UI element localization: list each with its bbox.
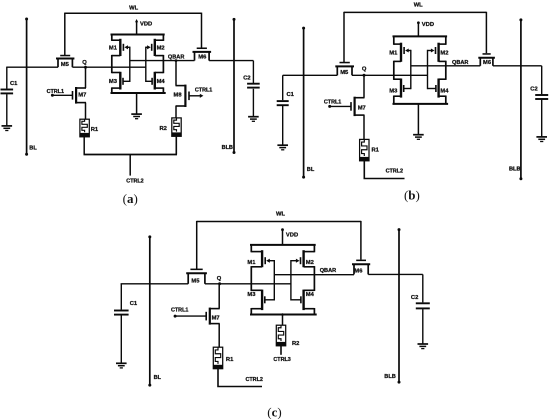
svg-text:M3: M3 [247,292,256,298]
capacitor C2 [247,83,260,85]
memristor R1 [80,119,89,137]
wire CTRL2 rail [84,154,178,156]
transistor M1 (PMOS) [261,250,263,267]
node Q (c) [218,282,221,285]
wire WL to M6 gate (c) [360,221,362,260]
transistor M4 (NMOS) [302,290,304,311]
transistor M7 (NMOS) [76,87,86,89]
svg-text:BLB: BLB [384,374,396,380]
svg-text:R2: R2 [292,341,299,347]
svg-text:M3: M3 [109,79,118,85]
wire Q to M7 drain (c) [218,284,220,309]
svg-text:M5: M5 [340,70,349,76]
node Q (b) [363,74,366,77]
wire C2 stem (c) [422,274,424,302]
svg-text:CTRL1: CTRL1 [171,308,188,314]
svg-text:BL: BL [154,375,162,381]
svg-text:R1: R1 [226,357,234,363]
transistor M7 (NMOS) [210,308,220,310]
wire WL to M6 gate (b) [485,12,487,53]
transistor M3 (NMOS) [261,290,263,311]
capacitor C1 [277,100,289,102]
wire WL horizontal (b) [344,11,486,13]
svg-text:M6: M6 [354,268,363,274]
svg-text:CTRL2: CTRL2 [126,179,143,185]
svg-text:CTRL2: CTRL2 [386,169,403,175]
transistor M1 (PMOS) [119,39,121,56]
wire WL horizontal [65,12,202,14]
svg-text:BLB: BLB [222,145,233,151]
memristor R2 [276,325,285,346]
wire R1 to CTRL2 (c) [218,368,262,386]
wire C2 to ground (b) [541,100,543,137]
wire BLB bitline (b) [520,20,522,179]
transistor M8 (NMOS) [176,85,186,87]
wire M7 source to R1 (b) [363,115,365,140]
wire Q-bar to M8 drain [175,61,177,86]
wire VDD rail [111,34,165,36]
svg-text:M7: M7 [78,92,86,98]
node Q [84,66,87,69]
wire inverter right output (M2/M4 drains) [162,34,164,41]
wire WL to M5 gate [64,13,66,55]
svg-text:BL: BL [29,145,37,151]
svg-text:QBAR: QBAR [452,60,468,66]
wire C1 stem (c) [120,284,122,310]
wire inverter right output (M2/M4 drains) [313,244,315,252]
wire BL bitline (c) [149,237,151,386]
wire C2 stem (b) [541,66,543,94]
wire M7 source to R1 (c) [218,324,220,348]
svg-text:M1: M1 [389,51,398,57]
svg-text:CTRL2: CTRL2 [246,377,263,383]
wire VDD rail [250,244,316,246]
transistor M6 (access NMOS) [478,57,495,59]
capacitor C1 [114,310,129,312]
wire BLB bitline [233,19,235,152]
svg-text:VDD: VDD [286,232,298,238]
wire R1 to CTRL2 (b) [364,160,404,178]
wire C1 to ground (b) [282,106,284,145]
svg-text:VDD: VDD [140,22,152,28]
svg-text:R2: R2 [160,126,167,132]
svg-text:C1: C1 [287,92,295,98]
ground (C1 c) [116,362,127,364]
svg-text:M4: M4 [157,79,166,85]
transistor M2 (PMOS) [154,39,156,56]
svg-text:WL: WL [276,212,285,218]
wire inverter left output (M1/M3 drains) [393,36,395,45]
wire inverter right output (M2/M4 drains) [445,36,447,45]
transistor M2 (PMOS) [437,43,439,62]
svg-text:C2: C2 [243,75,250,81]
wire R2 to CTRL2 rail [175,136,177,155]
transistor M6 (access NMOS) [193,51,212,53]
wire inverter left output (M1/M3 drains) [250,244,252,252]
svg-text:M4: M4 [440,88,449,94]
wire CTRL1 to M7 gate (b) [330,105,351,107]
svg-text:M3: M3 [389,88,398,94]
wire node QBAR row (b) [411,65,481,67]
wire BL bitline [26,19,28,155]
wire GND rail [393,103,449,105]
capacitor C1 [1,89,14,91]
svg-text:M5: M5 [61,62,70,68]
transistor M6 (access NMOS) [352,263,370,265]
wire CTRL2 stub [129,155,131,176]
svg-text:WL: WL [129,5,138,11]
svg-text:Q: Q [82,60,87,66]
wire GND rail [111,92,166,94]
ground (C2 a) [248,116,259,118]
power VDD [136,21,138,35]
wire GND tap (inverter a) [136,93,138,114]
capacitor C2 [416,302,430,304]
transistor M1 (PMOS) [400,43,402,62]
svg-text:M2: M2 [306,260,314,266]
power VDD [282,230,284,245]
transistor M5 (access NMOS) [335,65,354,67]
ground (inverter a) [131,113,142,115]
wire node QBAR row [130,60,195,62]
wire Q to M7 drain (b) [363,75,365,97]
svg-text:QBAR: QBAR [320,268,336,274]
ground (inverter b) [413,134,424,136]
svg-text:M6: M6 [198,55,207,61]
ground (C2 c) [418,343,429,345]
ground (C1) [2,125,13,127]
svg-text:(a): (a) [123,191,138,206]
wire WL to M5 gate (c) [196,221,198,269]
wire inverter left output (M1/M3 drains) [111,34,113,41]
svg-text:M2: M2 [440,51,448,57]
svg-text:BL: BL [307,167,315,173]
wire cross-couple gates M2,M4 [145,47,147,82]
wire WL horizontal (c) [197,221,361,223]
svg-text:M5: M5 [191,279,200,285]
wire C1 stem [6,67,8,89]
svg-text:(b): (b) [404,188,420,203]
svg-text:C2: C2 [530,86,537,92]
node QBAR junction (M8 branch) [175,59,178,62]
svg-text:CTRL1: CTRL1 [324,99,341,105]
wire C2 stem [252,61,254,84]
wire cross-couple gates M2,M4 [427,50,429,89]
svg-text:CTRL3: CTRL3 [273,357,290,363]
svg-text:CTRL1: CTRL1 [47,89,64,95]
wire VDD rail [393,35,448,37]
wire node Q row (c) [121,283,189,285]
wire BL bitline (b) [303,28,305,177]
wire R1 to CTRL2 rail [83,137,85,155]
wire CTRL1 to M8 gate [189,95,201,97]
wire GND-side tap to R2 (c) [282,315,284,326]
svg-text:M8: M8 [174,93,183,99]
wire WL to M5 gate (b) [343,12,345,63]
transistor M5 (access NMOS) [186,272,207,274]
wire C1 to ground (c) [120,315,122,363]
transistor M3 (NMOS) [400,79,402,98]
wire node QBAR row (c) [274,274,354,276]
svg-text:(c): (c) [267,404,281,419]
svg-text:R1: R1 [91,127,99,133]
svg-text:VDD: VDD [422,22,434,28]
svg-text:M4: M4 [306,292,315,298]
wire C1 to ground [6,94,8,125]
power VDD [417,23,419,37]
svg-text:QBAR: QBAR [168,55,184,61]
wire M8 source to R2 [175,106,177,118]
wire C2 to ground [252,89,254,117]
svg-text:Q: Q [362,66,367,72]
ground (C2 b) [536,136,547,138]
svg-text:BLB: BLB [509,167,521,173]
wire CTRL1 to M7 gate (c) [175,315,206,317]
wire GND tap (inverter b) [417,104,419,134]
svg-text:Q: Q [217,276,222,282]
transistor M2 (PMOS) [302,250,304,267]
svg-text:C1: C1 [130,301,138,307]
wire cross-couple gates M1,M3 [273,260,275,301]
wire cross-couple gates M2,M4 [290,260,292,301]
wire BLB bitline (c) [398,229,400,382]
transistor M3 (NMOS) [119,72,121,90]
svg-text:M1: M1 [247,260,256,266]
transistor M4 (NMOS) [437,79,439,98]
wire Q to M7 drain [85,67,87,88]
svg-text:CTRL1: CTRL1 [195,88,212,94]
wire node Q row (b) [283,74,338,76]
wire WL to M6 gate [201,13,203,48]
svg-text:C2: C2 [411,295,418,301]
wire node Q row [7,66,58,68]
wire GND rail [250,314,317,316]
svg-text:M2: M2 [157,46,165,52]
transistor M7 (NMOS) [355,97,365,99]
wire C1 stem (b) [282,75,284,100]
capacitor C2 [535,94,548,96]
svg-text:M1: M1 [109,46,118,52]
svg-text:M7: M7 [212,315,220,321]
wire cross-couple gates M1,M3 [129,47,131,82]
transistor M4 (NMOS) [154,72,156,90]
svg-text:R1: R1 [372,148,380,154]
svg-text:M6: M6 [483,60,492,66]
wire R2 to CTRL3 (c) [280,345,282,354]
wire C2 to ground (c) [422,309,424,344]
memristor R2 [172,118,181,136]
svg-text:M7: M7 [358,106,366,112]
memristor R1 [213,347,222,369]
wire cross-couple gates M1,M3 [410,50,412,89]
transistor M5 (access NMOS) [56,58,74,60]
wire CTRL1 to M7 gate [52,94,72,96]
memristor R1 [360,139,369,160]
wire M7 source to R1 [85,103,87,120]
svg-text:WL: WL [414,3,423,9]
ground (C1 b) [277,144,288,146]
svg-text:C1: C1 [10,81,18,87]
